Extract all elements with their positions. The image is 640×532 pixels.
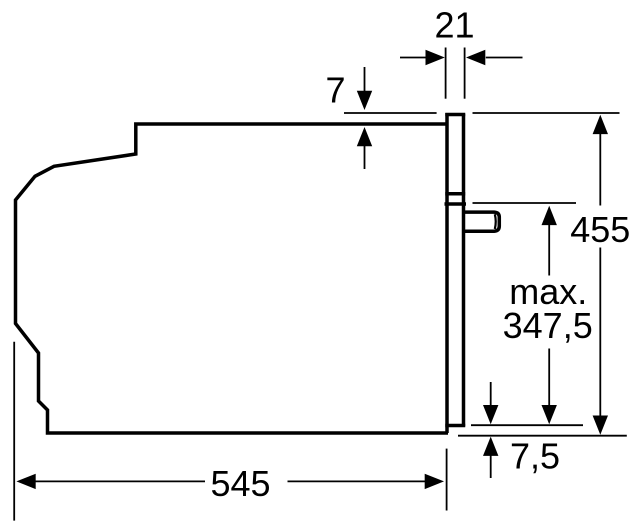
dim 455 stem lower [599, 248, 601, 417]
dim 545 extension line left [13, 342, 15, 521]
dim 21 leader right [486, 57, 523, 59]
door bottom edge [445, 424, 465, 428]
control panel divider [445, 192, 465, 196]
arrow 545 right [425, 474, 444, 489]
dim 455 stem upper [599, 133, 601, 206]
svg-text:7,5: 7,5 [510, 436, 560, 477]
dim 545 leader right [288, 480, 426, 482]
svg-text:7: 7 [325, 70, 345, 111]
frame top edge [445, 113, 465, 117]
dim 7_5 lower stem [490, 455, 492, 478]
arrow 21 right [466, 50, 485, 65]
svg-text:545: 545 [210, 463, 270, 504]
handle end cap inner line [494, 214, 497, 229]
dim 7_5 upper stem [490, 382, 492, 406]
dim 7 upper stem [364, 67, 366, 91]
arrow 21 left [426, 50, 445, 65]
dim max347 extension line [473, 202, 577, 204]
svg-text:347,5: 347,5 [503, 305, 593, 346]
door left edge [445, 113, 449, 433]
oven body outline [16, 124, 449, 433]
dim 21 extension line right [464, 48, 466, 99]
dim 455 top extension line [473, 112, 620, 114]
arrow 7_5 down [483, 405, 498, 424]
arrow 7 up [357, 127, 372, 146]
arrow 7 down [357, 91, 372, 110]
arrow max347 up [542, 206, 557, 225]
arrow 545 left [16, 474, 35, 489]
svg-text:455: 455 [570, 209, 630, 250]
dim 7_5 top line [471, 424, 583, 426]
handle [465, 212, 499, 231]
dim 21 extension line left [445, 48, 447, 99]
dim 7 reference line [344, 112, 437, 114]
dim 21 leader left [400, 57, 426, 59]
arrow max347 down [542, 405, 557, 424]
door top edge [445, 202, 467, 206]
dim max347 stem lower [548, 349, 550, 406]
arrow 455 up [593, 115, 608, 134]
door right edge [462, 114, 466, 427]
arrow 7_5 up [483, 437, 498, 456]
dim 545 extension line right [446, 449, 448, 511]
dim 545 leader left [35, 480, 205, 482]
arrow 455 down [593, 416, 608, 435]
svg-text:21: 21 [434, 4, 474, 45]
dim 7 lower stem [364, 146, 366, 169]
dim max347 stem upper [548, 224, 550, 276]
dim 7_5 bottom line [458, 435, 627, 437]
